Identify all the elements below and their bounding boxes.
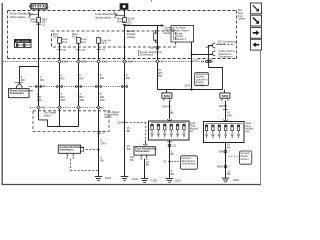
nav button 2	[250, 15, 261, 26]
T1 fork below	[141, 155, 147, 158]
wire B from box B	[124, 9, 126, 17]
horizontal feeder wire to fuse E	[125, 25, 162, 27]
ground G103 on wire E2	[95, 177, 103, 181]
nav button 4	[250, 39, 261, 50]
box Coolant Distribution callout	[58, 145, 80, 153]
svg-text:GroundDistrib.Schem.: GroundDistrib.Schem.	[240, 151, 249, 161]
ground G302 on J2 wire	[222, 178, 230, 182]
UEC bus wire	[48, 126, 79, 128]
feeder arrowhead	[161, 24, 164, 26]
wire E2 connector ticks below UEC	[97, 131, 102, 133]
dashed wire from T2 to wire E2	[71, 170, 99, 172]
svg-text:G103: G103	[105, 176, 112, 180]
svg-text:40A: 40A	[26, 44, 31, 47]
label C101 on dashed rail	[206, 57, 211, 60]
svg-text:30A: 30A	[19, 44, 24, 47]
connector arc into junction block 1	[167, 119, 172, 120]
fuse MAXI on wire B	[123, 17, 127, 22]
frame left border	[1, 3, 3, 185]
svg-text:G302: G302	[233, 178, 240, 182]
wire D vertical	[78, 43, 80, 126]
connector tick C2 wire B	[122, 23, 126, 25]
connector arc into T1	[143, 144, 148, 145]
T2 fork below	[67, 153, 74, 156]
svg-text:C100: C100	[81, 61, 87, 64]
ECM bracket C2 (lower)	[212, 51, 215, 56]
leader line mid label to wire B	[116, 14, 124, 16]
connector arc into junction block 2	[223, 120, 228, 121]
leader line label to wire A	[31, 14, 38, 16]
wire C connector at dotted row	[56, 86, 58, 88]
junction dot J1 ground leader	[168, 160, 170, 162]
svg-text:S204: S204	[117, 120, 124, 124]
wire from S2 down	[225, 101, 227, 120]
wire D connector at dotted row	[75, 86, 77, 88]
splice dot S1 wire	[169, 105, 171, 107]
connector tick S2 wire	[223, 109, 227, 111]
wire A down	[38, 23, 40, 120]
ECM wire elbow to bus	[209, 68, 223, 90]
dashed stub from bracket C1	[216, 44, 234, 46]
fuse MAXI 40A on wire A	[37, 17, 41, 23]
svg-text:S264: S264	[164, 94, 171, 98]
T2 right tab	[81, 147, 84, 151]
wire B connector at dotted row	[121, 86, 123, 88]
wire out of J2	[225, 143, 227, 179]
wire A connector at dotted row	[35, 86, 37, 88]
power feed box A (Hot At All Times)	[31, 4, 47, 9]
ground G108 on T1 wire	[141, 179, 149, 183]
connector circle J2 upper	[224, 150, 227, 153]
frame bottom border	[2, 184, 261, 186]
legend box MAXI FUSES	[15, 40, 32, 48]
wire branch to Power Distribution	[20, 67, 39, 84]
wire A connector diamond C100	[37, 106, 40, 109]
power feed box B terminal	[120, 4, 128, 9]
callout Refrigerant System Controls	[195, 73, 209, 86]
svg-text:BatteryPositiveVoltage: BatteryPositiveVoltage	[127, 29, 137, 39]
connector tick C8 wire E2	[97, 49, 101, 51]
callout Ground Distribution Schematics (right)	[239, 151, 251, 164]
fuse element on wire C	[58, 38, 62, 44]
wire D connector diamond C100	[77, 60, 80, 63]
junction node wire F at bus	[190, 88, 192, 90]
wire E2 connector at dotted row	[95, 86, 97, 88]
wire E2 connector diamond UEC	[97, 106, 100, 109]
connector tick J1 out	[167, 141, 171, 143]
branch fork into box P1	[17, 84, 23, 89]
inner fuse detail dashed box	[52, 31, 176, 47]
svg-text:G108: G108	[150, 179, 157, 183]
junction node wire A / branch	[38, 66, 40, 68]
connector tick C8 wire C	[57, 49, 61, 51]
svg-text:HOT AT ALL: HOT AT ALL	[29, 5, 49, 9]
svg-text:A: A	[132, 17, 134, 21]
wire F from note box	[191, 42, 193, 90]
svg-text:C100: C100	[127, 61, 133, 64]
ground G113 on J1 wire	[166, 178, 174, 182]
dashed wire from T2 down	[70, 159, 72, 171]
brace left label	[28, 12, 30, 17]
nav button 1	[250, 3, 261, 14]
wire A corner into UEC bus	[39, 120, 48, 127]
wire D connector diamond UEC	[77, 106, 80, 109]
splice box S1	[162, 93, 172, 98]
wire B down	[124, 26, 126, 177]
label Sensor Distribution Schematics	[137, 51, 140, 56]
splice box S1 stub	[166, 90, 168, 93]
wire B connector diamond C100	[123, 60, 126, 63]
splice S2 fork	[222, 98, 229, 101]
wire to ECM connector	[192, 54, 213, 56]
ECM wire connector circles C101	[206, 60, 208, 62]
fuse element on wire E	[154, 33, 158, 40]
junction node wire B / horizontal feeder	[124, 25, 126, 27]
wire C vertical	[59, 43, 61, 126]
underhood fuse block dashed outline right	[236, 11, 238, 59]
connector tick C8 wire D	[76, 49, 80, 51]
underhood fuse block dashed outline top	[8, 10, 237, 12]
connector row C100 dotted line	[3, 61, 213, 63]
label C100 on dashed rail	[192, 57, 198, 61]
callout Ground Distribution Schematics (mid)	[180, 156, 197, 169]
leader diagonal to bracket	[206, 45, 212, 48]
underhood fuse block dashed outline bottom	[8, 58, 237, 60]
connector row dotted line 2	[29, 86, 128, 88]
svg-text:S263: S263	[219, 105, 225, 108]
svg-text:C100: C100	[192, 57, 199, 61]
dashed leader to ground callout right	[228, 155, 239, 157]
splice S1 fork	[164, 98, 171, 101]
box Power Distribution Schematics	[9, 89, 29, 98]
junction block J2 (glow plug module RH)	[204, 122, 245, 143]
svg-text:S264: S264	[162, 105, 168, 108]
svg-text:SB45: SB45	[217, 166, 224, 169]
wire from ECM bracket down	[209, 46, 213, 68]
box Fuse Distribution Schematics (bottom)	[134, 147, 155, 155]
box To Inside Vehicle note	[171, 26, 194, 43]
fuse element on wire D	[77, 38, 81, 44]
wire E connector diamond C7	[156, 60, 159, 63]
page tab mark	[150, 0, 152, 2]
ECM bracket C1 (upper)	[212, 43, 215, 48]
dashed leader T2 to wire E2	[86, 149, 98, 151]
wire from S1 down	[169, 101, 171, 119]
wire E2 vertical	[98, 43, 100, 176]
wire E2 connector diamond C100	[97, 60, 100, 63]
ground G104 on wire B	[121, 177, 129, 181]
dashed leader to ground callout	[171, 161, 180, 163]
svg-text:S263: S263	[222, 94, 229, 98]
underhood fuse block dashed outline left	[7, 11, 9, 59]
connector row dotted line 3	[30, 106, 103, 108]
wire C connector diamond C100	[58, 60, 61, 63]
svg-text:G113: G113	[175, 178, 182, 182]
svg-text:C100: C100	[102, 61, 108, 64]
fuse element on wire E2	[97, 38, 101, 44]
bus wire lower	[158, 89, 223, 91]
junction block J1 (glow plug module)	[149, 121, 190, 140]
nav button 3	[250, 27, 261, 38]
svg-text:S154: S154	[184, 85, 190, 88]
junction node wire F / ECM feed	[191, 54, 193, 56]
connector tick C1 wire A	[36, 24, 40, 26]
svg-text:SB45: SB45	[218, 151, 225, 154]
connector circle J2 lower	[224, 165, 227, 168]
wire E connector circle	[156, 46, 159, 49]
wire E from feeder	[157, 26, 159, 90]
underhood electrical center dashed box	[33, 111, 109, 132]
dashed stub above T1	[145, 122, 147, 140]
wire A from box A	[38, 9, 40, 17]
junction node wire E2 / coolant leader	[97, 148, 99, 150]
svg-text:C100: C100	[62, 61, 68, 64]
splice box S2	[220, 93, 230, 98]
wire out of J1	[169, 140, 171, 178]
dashed leader S204 to T1 stub	[126, 121, 146, 123]
brace mid label	[114, 13, 116, 18]
splice dot S2 wire	[225, 105, 227, 107]
splice box S2 stub	[224, 90, 226, 93]
frame right border	[260, 49, 262, 185]
wire C connector diamond UEC	[58, 106, 61, 109]
connector circle J1 out	[168, 144, 171, 147]
wire from T1 down	[144, 159, 146, 179]
svg-text:G104: G104	[132, 177, 139, 181]
svg-text:MAXI FUSES: MAXI FUSES	[16, 40, 29, 43]
